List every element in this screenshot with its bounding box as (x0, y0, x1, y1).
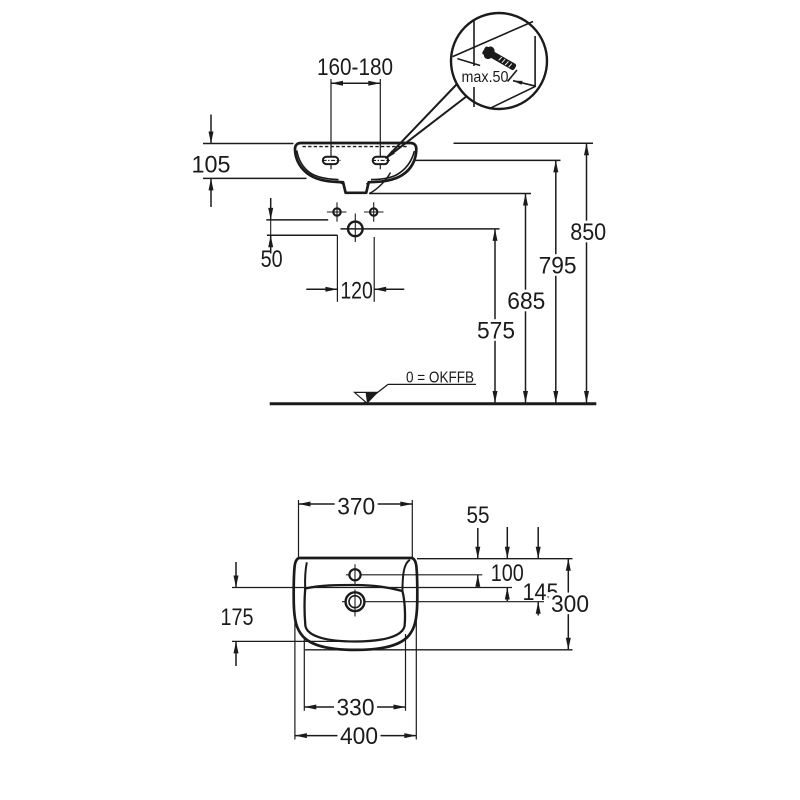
svg-text:50: 50 (261, 246, 283, 273)
svg-text:175: 175 (221, 604, 254, 631)
svg-text:850: 850 (570, 219, 606, 246)
svg-text:100: 100 (491, 560, 524, 587)
svg-text:160-180: 160-180 (317, 54, 393, 81)
svg-text:300: 300 (551, 591, 589, 618)
svg-text:400: 400 (340, 723, 378, 750)
svg-text:795: 795 (539, 253, 577, 280)
svg-text:0 = OKFFB: 0 = OKFFB (406, 369, 474, 386)
svg-text:330: 330 (337, 695, 375, 722)
svg-text:105: 105 (192, 151, 231, 178)
svg-text:685: 685 (507, 288, 545, 315)
svg-text:max.50: max.50 (462, 69, 509, 86)
svg-text:370: 370 (337, 493, 375, 520)
svg-text:120: 120 (340, 277, 373, 304)
svg-text:575: 575 (477, 318, 515, 345)
svg-text:55: 55 (467, 502, 490, 529)
